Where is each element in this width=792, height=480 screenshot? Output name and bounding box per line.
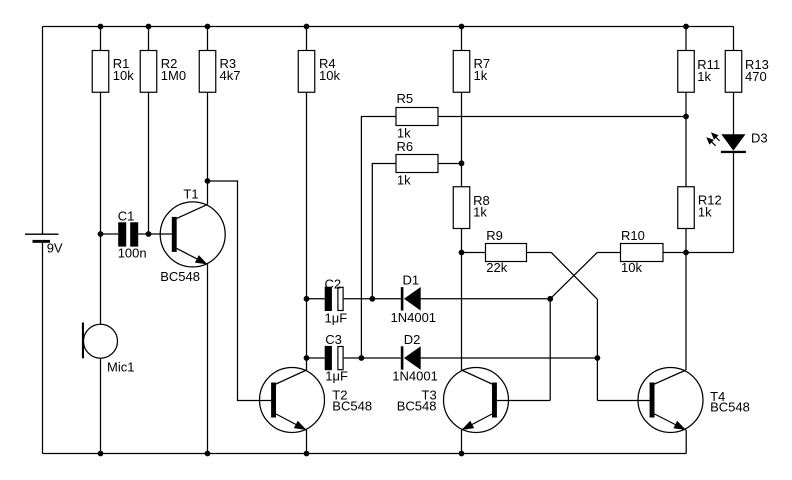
node D1 R10 T3base junction [547,296,553,302]
node top rail R11 [683,24,689,30]
node D2 R9 T4base junction [595,355,601,361]
wire D2 anode to R9 riser [421,357,598,359]
wire R3 top lead [207,27,209,51]
svg-text:1k: 1k [473,205,487,220]
resistor R2 [140,51,186,93]
node top rail R4 [304,24,310,30]
wire C2 left lead [307,298,325,300]
wire R9 right lead [527,252,552,254]
resistor R6 [396,139,438,187]
diode D2 [392,332,438,384]
capacitor C3 [325,332,348,384]
transistor T3 [397,368,509,433]
svg-text:9V: 9V [47,241,63,256]
wire R13 top lead [733,27,735,51]
wire C2 right to D1 [344,298,401,300]
wire T3 base lead [497,400,550,402]
wire C3 right to D2 [344,357,401,359]
node top rail R7 [459,24,465,30]
wire R2 bottom lead [148,92,150,234]
resistor R10 [621,228,664,275]
svg-text:R5: R5 [397,91,414,106]
node top rail R2 [146,24,152,30]
svg-text:100n: 100n [118,246,147,261]
svg-text:1k: 1k [397,172,411,187]
wire top supply rail [43,26,734,28]
svg-text:C3: C3 [325,332,342,347]
wire R5 right to R11 node [438,116,686,118]
wire T4 emitter to ground corner [685,430,687,454]
resistor R13 [725,51,769,93]
capacitor C1 [118,209,147,261]
wire C1 right to T1 base [138,233,172,235]
svg-text:1N4001: 1N4001 [392,369,438,384]
wire R7 top lead [461,27,463,51]
diode D1 [391,273,437,325]
wire R7 to R8 [461,92,463,187]
wire R3 bottom lead [207,92,209,181]
node R5 right junction [683,114,689,120]
transistor T2 [260,368,373,433]
svg-text:BC548: BC548 [332,398,372,413]
svg-text:1k: 1k [698,204,712,219]
battery 9V [25,234,63,256]
wire left battery branch lower [42,243,44,454]
svg-text:D1: D1 [403,273,420,288]
node C3-R5 tap [359,355,365,361]
wire C1 left lead [101,233,119,235]
svg-text:BC548: BC548 [160,269,200,284]
node R10 R12 D3 junction [683,250,689,256]
node top rail R1 [98,24,104,30]
svg-text:T1: T1 [183,186,198,201]
svg-text:R9: R9 [486,228,503,243]
node C3 left [304,355,310,361]
svg-text:10k: 10k [319,68,340,83]
wire R10 right lead [663,252,686,254]
wire R6 left lead and riser to C2 node [372,164,396,299]
svg-text:1M0: 1M0 [161,68,186,83]
wire R2 top lead [148,27,150,51]
wire T4 base riser [596,299,598,400]
node top rail R3 [205,24,211,30]
wire R10 left lead [597,252,620,254]
resistor R11 [678,51,720,93]
svg-text:D2: D2 [404,332,421,347]
wire T1 collector stub [207,181,209,204]
resistor R8 [453,187,489,229]
wire R10 diagonal to D1 node [550,253,597,299]
svg-text:R10: R10 [621,228,645,243]
wire R1 bottom to mic [100,92,102,324]
capacitor C2 [325,276,348,325]
svg-text:1N4001: 1N4001 [391,310,437,325]
node T1 collector [205,178,211,184]
node R8 R9 junction [459,250,465,256]
resistor R9 [486,228,527,275]
svg-text:4k7: 4k7 [220,68,241,83]
wire T3 base riser [549,299,551,401]
svg-text:470: 470 [745,69,767,84]
wire R1 top lead [100,27,102,51]
svg-text:1k: 1k [697,69,711,84]
svg-text:22k: 22k [486,260,507,275]
wire T2 emitter to ground [306,430,308,454]
wire R11 top lead [685,27,687,51]
wire T3 emitter to ground [461,430,463,454]
wire T1 emitter to ground [207,264,209,453]
node ground rail T3 emitter [459,451,465,457]
wire R11 to R12 [685,92,687,187]
resistor R1 [92,51,134,93]
node C1 left [98,231,104,237]
resistor R5 [396,91,438,140]
node ground rail T2 emitter [304,451,310,457]
svg-text:BC548: BC548 [710,400,750,415]
transistor T4 [638,368,750,433]
node R6 right junction [459,160,465,166]
wire R4 top lead [306,27,308,51]
wire T4 base lead [597,400,650,402]
svg-text:C1: C1 [118,209,135,224]
svg-text:10k: 10k [113,68,134,83]
LED D3 [706,130,767,153]
svg-text:Mic1: Mic1 [107,359,134,374]
wire D3 cathode down [733,153,735,252]
svg-text:1μF: 1μF [325,369,348,384]
wire left battery branch upper [42,27,44,234]
wire R4 bottom to T2 collector [306,92,308,370]
microphone Mic1 [82,323,135,375]
wire R9 left lead [462,252,486,254]
wire D1 anode to crossover node [421,298,551,300]
node C2-R6 tap [369,296,375,302]
svg-text:BC548: BC548 [397,399,437,414]
node C1 right T1 base [146,231,152,237]
node C2 left [304,296,310,302]
transistor T1 [160,186,225,284]
node ground rail mic [98,451,104,457]
wire R8 bottom to T3 collector [461,229,463,371]
wire bottom ground rail [43,453,687,455]
svg-text:10k: 10k [621,260,642,275]
resistor R12 [678,187,722,229]
wire R12 bottom to T4 collector [685,229,687,371]
svg-text:D3: D3 [751,130,768,145]
svg-text:C2: C2 [325,276,342,291]
wire T1 collector to T2 base link [208,181,272,401]
resistor R7 [453,51,490,93]
wire mic to ground rail [100,358,102,453]
svg-text:R6: R6 [397,139,414,154]
wire R5 left lead and riser to C3 node [361,117,396,359]
wire C3 left lead [307,357,325,359]
svg-text:1μF: 1μF [325,310,348,325]
wire R13 to D3 [733,92,735,134]
resistor R3 [199,51,240,93]
wire D3 to R12 node [686,252,734,254]
resistor R4 [298,51,340,93]
node ground rail T1 emitter [205,451,211,457]
wire R9 diagonal to T4 base riser [551,253,597,300]
wire R6 right lead [438,163,462,165]
svg-text:1k: 1k [474,68,488,83]
